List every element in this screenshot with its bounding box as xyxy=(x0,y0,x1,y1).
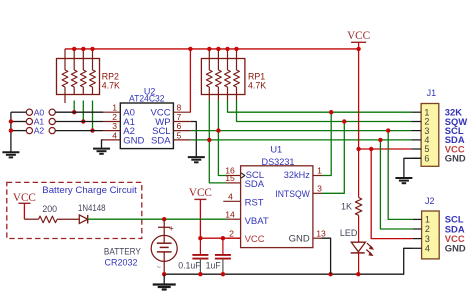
connector J1 xyxy=(412,88,468,166)
svg-text:1: 1 xyxy=(317,166,322,176)
jumper A0 xyxy=(26,107,103,117)
resistor R1 200 xyxy=(24,204,79,223)
power symbol VCC (top) xyxy=(347,30,370,49)
wire RP1.1/SDA to U1 xyxy=(209,101,226,183)
wire 32K net xyxy=(228,101,412,113)
jumper A1 xyxy=(26,117,103,127)
svg-text:GND: GND xyxy=(123,135,144,146)
svg-text:VBAT: VBAT xyxy=(245,216,269,227)
svg-text:1N4148: 1N4148 xyxy=(78,203,106,213)
wire SQW net xyxy=(237,101,412,122)
svg-text:4: 4 xyxy=(112,130,117,140)
junction SCL/RP1 xyxy=(216,128,220,132)
resistor pack RP1 4.7K xyxy=(201,49,266,101)
capacitor C1 0.1uF xyxy=(178,238,208,274)
junction rail/LED xyxy=(356,272,360,276)
svg-text:2: 2 xyxy=(229,228,234,238)
svg-text:GND: GND xyxy=(445,153,466,164)
svg-text:J1: J1 xyxy=(427,88,437,98)
svg-text:200: 200 xyxy=(42,204,57,214)
svg-text:VCC: VCC xyxy=(347,30,370,42)
junction VCC/C2 xyxy=(221,236,225,240)
IC U2 AT24C32 xyxy=(103,86,190,148)
LED D2 xyxy=(340,215,374,274)
wire VCC to U1 pin2 xyxy=(200,237,240,239)
svg-text:U1: U1 xyxy=(270,145,282,155)
svg-text:0.1uF: 0.1uF xyxy=(178,260,201,270)
IC U1 DS3231 xyxy=(223,145,326,248)
svg-text:VCC: VCC xyxy=(13,192,36,204)
junction rail/C1 xyxy=(198,272,202,276)
junction gnd bus A1 xyxy=(9,119,13,123)
ground (J1) xyxy=(395,178,412,183)
ground (battery) xyxy=(153,274,176,289)
wire RP2.4 to A2 net xyxy=(92,101,94,131)
junction rail/C2 xyxy=(221,272,225,276)
wire U2 GND xyxy=(102,140,104,149)
wire RP1.2/SCL to U1 xyxy=(218,101,226,176)
junction top rail / VCC symbol xyxy=(356,47,360,51)
wire jumper ground bus xyxy=(11,112,26,152)
junction top rail / RP2 pins xyxy=(72,47,95,51)
connector J2 xyxy=(413,196,466,259)
wire VCC right drop xyxy=(359,49,412,149)
svg-text:A2: A2 xyxy=(34,126,45,136)
ground (WP) xyxy=(188,157,205,162)
svg-text:RST: RST xyxy=(245,198,264,209)
svg-text:LED: LED xyxy=(340,228,358,238)
svg-text:DS3231: DS3231 xyxy=(262,157,295,168)
battery BT1 CR2032 xyxy=(104,219,177,274)
junction A2/RP2 xyxy=(90,128,94,132)
power symbol VCC (decoupling) xyxy=(189,187,212,238)
ground (address jumpers) xyxy=(2,152,19,157)
junction top rail / RP1 pins xyxy=(207,47,239,51)
svg-text:32kHz: 32kHz xyxy=(284,170,310,181)
diode D1 1N4148 xyxy=(78,203,106,224)
power symbol VCC (charge) xyxy=(13,192,36,219)
svg-text:SDA: SDA xyxy=(245,179,265,190)
wire SDA to J2 xyxy=(380,140,413,229)
svg-text:VCC: VCC xyxy=(189,187,212,199)
dashed box battery charge circuit xyxy=(7,182,142,238)
junction SDA/J2 xyxy=(378,138,382,142)
wire VBAT net xyxy=(88,218,227,220)
junction 32K/U1 xyxy=(329,110,333,114)
wire SCL to J2 xyxy=(388,131,413,220)
svg-text:INTSQW: INTSQW xyxy=(275,189,310,200)
wire RP2.3 to A1 net xyxy=(82,101,84,122)
svg-text:3: 3 xyxy=(317,184,322,194)
svg-text:1uF: 1uF xyxy=(206,260,222,270)
resistor R2 1K xyxy=(341,149,362,215)
junction rail/U1 gnd xyxy=(328,272,332,276)
wire U1 GND to rail xyxy=(322,238,331,274)
wire U1 INTSQW up xyxy=(322,122,344,194)
jumper A2 xyxy=(26,126,103,136)
junction gnd bus A2 xyxy=(9,128,13,132)
svg-text:14: 14 xyxy=(225,209,235,219)
svg-text:4.7K: 4.7K xyxy=(248,80,266,90)
svg-text:+: + xyxy=(169,223,174,233)
svg-text:1: 1 xyxy=(425,215,430,225)
wire ground rail xyxy=(164,248,413,274)
junction VCC/J2 branch xyxy=(369,147,373,151)
junction VCC/LED branch xyxy=(356,147,360,151)
wire U2 WP to gnd xyxy=(191,122,197,157)
svg-text:13: 13 xyxy=(316,228,326,238)
junction rail/U2 VCC xyxy=(188,47,192,51)
junction A1/RP2 xyxy=(81,119,85,123)
svg-text:SDA: SDA xyxy=(151,135,171,146)
svg-text:CR2032: CR2032 xyxy=(105,258,138,269)
wire J1 GND xyxy=(404,158,421,178)
junction SDA/RP1 xyxy=(207,138,211,142)
ground (U2) xyxy=(93,149,110,154)
svg-text:4: 4 xyxy=(425,244,430,254)
svg-text:GND: GND xyxy=(289,234,310,245)
junction SQW/U1 xyxy=(342,119,346,123)
svg-text:2: 2 xyxy=(425,224,430,234)
junction A0/RP2 xyxy=(72,110,76,114)
svg-text:1K: 1K xyxy=(341,202,352,212)
capacitor C2 1uF xyxy=(206,238,231,274)
svg-text:AT24C32: AT24C32 xyxy=(129,94,165,104)
wire VCC top rail xyxy=(65,48,359,50)
resistor pack RP2 4.7K xyxy=(57,49,121,103)
svg-text:6: 6 xyxy=(424,154,429,164)
wire U1 32kHz up xyxy=(322,112,331,175)
label battery charge circuit xyxy=(42,185,137,195)
svg-text:J2: J2 xyxy=(425,196,435,206)
svg-text:BATTERY: BATTERY xyxy=(104,246,141,256)
svg-text:Battery Charge Circuit: Battery Charge Circuit xyxy=(42,185,137,195)
svg-text:4: 4 xyxy=(228,192,233,202)
svg-text:15: 15 xyxy=(225,173,235,183)
wire SCL net xyxy=(191,130,412,132)
junction SCL/J2 xyxy=(386,128,390,132)
svg-text:4.7K: 4.7K xyxy=(102,80,120,90)
wire SDA net xyxy=(191,139,412,141)
junction rail/battery xyxy=(162,272,166,276)
svg-text:GND: GND xyxy=(445,243,466,254)
junction VCC/C1 xyxy=(198,236,202,240)
svg-text:~: ~ xyxy=(157,263,162,272)
wire VCC to J2 xyxy=(371,149,413,239)
junction VBAT/battery xyxy=(162,217,166,221)
wire U2 VCC to rail xyxy=(189,49,191,112)
svg-text:5: 5 xyxy=(177,130,182,140)
svg-text:3: 3 xyxy=(425,234,430,244)
wire RP2.2 to A0 net xyxy=(73,101,75,113)
svg-text:VCC: VCC xyxy=(245,234,265,245)
